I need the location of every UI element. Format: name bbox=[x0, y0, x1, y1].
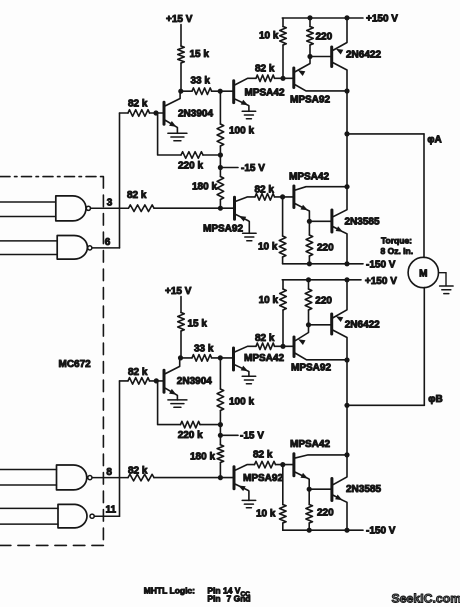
svg-text:180 k: 180 k bbox=[192, 182, 217, 193]
resistor 15 k (B) bbox=[178, 313, 185, 332]
svg-text:10 k: 10 k bbox=[256, 508, 276, 519]
ground 2N3904 emitter (B) bbox=[168, 399, 187, 401]
svg-text:180 k: 180 k bbox=[190, 451, 215, 462]
-150 V rail (B) bbox=[283, 529, 363, 531]
transistor 2N3904 (B) bbox=[163, 370, 166, 392]
svg-text:φA: φA bbox=[427, 135, 441, 146]
svg-text:33 k: 33 k bbox=[191, 75, 211, 86]
node 15k/33k/collector (A) bbox=[178, 89, 183, 94]
-15 V stub (B) bbox=[220, 434, 238, 436]
node rail/220 (B) bbox=[306, 277, 311, 282]
resistor 15 k (A) bbox=[178, 46, 185, 63]
svg-text:11: 11 bbox=[106, 505, 117, 516]
svg-text:220 k: 220 k bbox=[178, 161, 203, 172]
node collector join (B) bbox=[344, 452, 349, 457]
svg-text:33 k: 33 k bbox=[194, 343, 214, 354]
node phiB tap bbox=[344, 403, 349, 408]
svg-text:6: 6 bbox=[105, 237, 111, 248]
svg-text:82 k: 82 k bbox=[255, 184, 275, 195]
node 220k/100k (B) bbox=[218, 422, 223, 427]
svg-text:10 k: 10 k bbox=[258, 242, 278, 253]
node 33k/100k/base (A) bbox=[218, 89, 223, 94]
svg-text:+150 V: +150 V bbox=[365, 276, 397, 287]
wire 33k node to MPSA42 base (A) bbox=[220, 90, 234, 92]
svg-text:7 Gnd: 7 Gnd bbox=[227, 594, 251, 604]
-150 V rail (A) bbox=[283, 263, 363, 265]
svg-text:Torque:: Torque: bbox=[381, 235, 412, 245]
svg-text:MPSA42: MPSA42 bbox=[290, 439, 330, 450]
node MPSA42 emitter/220/2N3585 base (B) bbox=[307, 487, 312, 492]
svg-text:10 k: 10 k bbox=[259, 31, 279, 42]
svg-text:100 k: 100 k bbox=[229, 397, 254, 408]
svg-text:-15 V: -15 V bbox=[241, 163, 265, 174]
svg-text:MPSA42: MPSA42 bbox=[245, 88, 285, 99]
svg-text:2N3904: 2N3904 bbox=[177, 376, 212, 387]
svg-text:220: 220 bbox=[316, 32, 333, 43]
wire pin-6 riser bbox=[119, 113, 121, 248]
NAND gate G1 (pin 3) bbox=[56, 196, 86, 221]
svg-text:8: 8 bbox=[106, 467, 112, 478]
wire 15k to node (A) bbox=[180, 63, 182, 91]
svg-text:220: 220 bbox=[315, 295, 332, 306]
svg-text:Pin: Pin bbox=[207, 594, 220, 604]
svg-text:MPSA42: MPSA42 bbox=[289, 172, 329, 183]
node phiA tap bbox=[344, 131, 349, 136]
svg-text:SeekIC.com: SeekIC.com bbox=[392, 591, 460, 605]
node 82k/10k/MPSA92 base (A) bbox=[280, 76, 285, 81]
svg-text:2N3585: 2N3585 bbox=[346, 484, 381, 495]
node rail/2N6422 emitter (B) bbox=[344, 277, 349, 282]
svg-text:-150 V: -150 V bbox=[366, 526, 396, 537]
svg-text:220: 220 bbox=[317, 507, 334, 518]
node MPSA92/2N6422 base (B) bbox=[306, 322, 311, 327]
-15 V stub (A) bbox=[220, 167, 238, 169]
ground MPSA42 emitter (A) bbox=[242, 110, 256, 112]
NAND gate G4 (pin 11) bbox=[58, 504, 87, 528]
svg-text:82 k: 82 k bbox=[128, 99, 148, 110]
node 33k/100k/base (B) bbox=[218, 355, 223, 360]
svg-text:15 k: 15 k bbox=[188, 318, 208, 329]
node pin3/base line (A) bbox=[218, 206, 223, 211]
node 82k/10k/MPSA92 base (B) bbox=[280, 344, 285, 349]
node 220k/100k (A) bbox=[218, 152, 223, 157]
node 2N3904 base (A) bbox=[153, 110, 158, 115]
ground 2N3904 emitter (A) bbox=[168, 132, 187, 134]
node collector join (A) bbox=[344, 184, 349, 189]
node pin8/base line (B) bbox=[218, 475, 223, 480]
node rail/2N6422 emitter (A) bbox=[344, 15, 349, 20]
wire to phi B bbox=[347, 404, 424, 406]
svg-text:100 k: 100 k bbox=[229, 126, 254, 137]
NAND gate G3 (pin 8) bbox=[57, 465, 87, 490]
node output phase B bbox=[344, 357, 349, 362]
motor M bbox=[408, 257, 438, 287]
+150 V rail (B) bbox=[282, 279, 361, 281]
svg-text:2N6422: 2N6422 bbox=[345, 319, 380, 330]
svg-text:+150 V: +150 V bbox=[366, 13, 398, 24]
svg-text:φB: φB bbox=[428, 394, 442, 405]
svg-text:10 k: 10 k bbox=[259, 295, 279, 306]
svg-text:MPSA42: MPSA42 bbox=[244, 353, 284, 364]
wire to phi A bbox=[347, 133, 424, 135]
svg-text:82 k: 82 k bbox=[255, 333, 275, 344]
node output phase A bbox=[344, 88, 349, 93]
wire base line to MPSA92 (A low) bbox=[220, 207, 234, 209]
transistor 2N3904 (A) bbox=[163, 102, 166, 124]
svg-text:2N6422: 2N6422 bbox=[346, 50, 381, 61]
svg-text:+15 V: +15 V bbox=[166, 14, 193, 25]
node -15V tap (A) bbox=[218, 165, 223, 170]
svg-text:MC672: MC672 bbox=[59, 359, 92, 370]
svg-text:MPSA92: MPSA92 bbox=[291, 363, 331, 374]
svg-text:MPSA92: MPSA92 bbox=[243, 473, 283, 484]
node 2N3904 base (B) bbox=[154, 378, 159, 383]
wire output vertical (B) bbox=[346, 360, 348, 455]
wire output vertical (A) bbox=[346, 91, 348, 187]
MC672 package dashed box bbox=[0, 176, 103, 178]
svg-text:MPSA92: MPSA92 bbox=[290, 95, 330, 106]
NAND gate G2 (pin 6) bbox=[57, 236, 87, 260]
svg-text:-15 V: -15 V bbox=[240, 431, 264, 442]
node MPSA92/2N6422 base (A) bbox=[307, 54, 312, 59]
node rail/220 (A) bbox=[307, 15, 312, 20]
ground MPSA42 emitter (B) bbox=[242, 375, 256, 377]
ground MPSA92 emitter (B) bbox=[242, 499, 256, 501]
ground MPSA92 emitter (A) bbox=[243, 232, 257, 234]
svg-text:82 k: 82 k bbox=[128, 367, 148, 378]
node MPSA42 emitter/220/2N3585 base (A) bbox=[307, 219, 312, 224]
wire 15k to node (B) bbox=[180, 331, 182, 358]
svg-text:220 k: 220 k bbox=[178, 430, 203, 441]
svg-text:220: 220 bbox=[317, 243, 334, 254]
svg-text:-150 V: -150 V bbox=[366, 259, 396, 270]
motor ground bbox=[439, 272, 447, 274]
svg-text:15 k: 15 k bbox=[190, 49, 210, 60]
svg-text:2N3585: 2N3585 bbox=[345, 216, 380, 227]
node 15k/33k/collector (B) bbox=[178, 355, 183, 360]
svg-text:3: 3 bbox=[107, 198, 113, 209]
svg-text:82 k: 82 k bbox=[255, 64, 275, 75]
svg-text:82 k: 82 k bbox=[253, 450, 273, 461]
svg-text:M: M bbox=[419, 268, 427, 279]
node 82k/10k/MPSA42 base lower (B) bbox=[280, 462, 285, 467]
node 82k/10k/MPSA42 base lower (A) bbox=[280, 194, 285, 199]
wire pin-11 riser bbox=[119, 381, 121, 516]
+150 V rail (A) bbox=[282, 17, 363, 19]
svg-text:+15 V: +15 V bbox=[165, 286, 192, 297]
svg-text:82 k: 82 k bbox=[127, 190, 147, 201]
svg-text:2N3904: 2N3904 bbox=[178, 108, 213, 119]
svg-text:8 Oz. In.: 8 Oz. In. bbox=[381, 246, 414, 256]
wire +15V to 15k (B) bbox=[180, 297, 182, 313]
node -15V tap (B) bbox=[218, 433, 223, 438]
svg-text:MPSA92: MPSA92 bbox=[203, 224, 243, 235]
wire +15V to 15k (A) bbox=[180, 25, 182, 47]
svg-text:MHTL Logic:: MHTL Logic: bbox=[144, 586, 195, 596]
